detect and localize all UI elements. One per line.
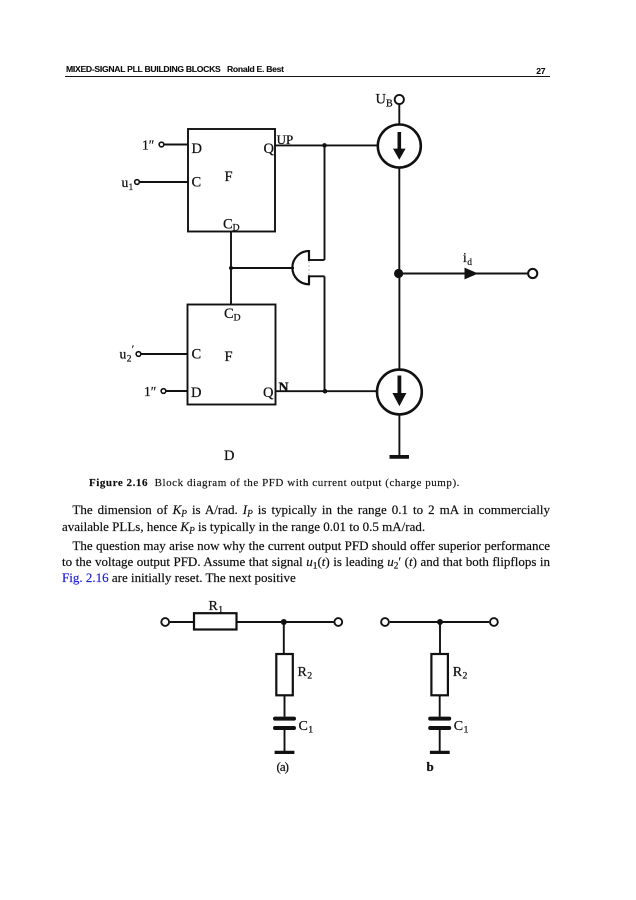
svg-text:2: 2 (307, 671, 312, 682)
current source I1 (378, 125, 421, 168)
ground (b) (430, 751, 450, 754)
svg-text:D: D (191, 385, 201, 401)
flip-flop FF1 box (188, 129, 275, 232)
svg-text:2: 2 (127, 355, 132, 365)
svg-text:R: R (453, 665, 463, 680)
figure caption (89, 477, 460, 489)
wire node down to R2 (b) (439, 622, 441, 654)
output node junction (394, 269, 403, 278)
svg-text:D: D (224, 448, 234, 464)
svg-text:1: 1 (218, 605, 223, 616)
wire UP junction down to AND gate input (324, 145, 326, 260)
AND gate U1 (mirrored, output to left) (292, 250, 309, 285)
wire I2 to ground (398, 414, 400, 455)
wire reset node to AND gate output (231, 267, 294, 269)
svg-text:u: u (122, 175, 129, 190)
junction node (b) (437, 619, 443, 625)
wire UB to current source I1 (398, 104, 400, 124)
output terminal id (528, 269, 537, 278)
junction reset node (229, 266, 233, 270)
svg-text:d: d (467, 258, 472, 268)
body paragraph 1 line 2 (62, 520, 550, 533)
svg-text:′: ′ (132, 344, 134, 356)
svg-text:D: D (192, 141, 202, 157)
wire C1 to ground (b) (439, 728, 441, 751)
svg-text:R: R (209, 599, 219, 614)
input terminal 1" (FF1 D) (159, 142, 164, 147)
svg-text:Q: Q (264, 141, 275, 157)
body paragraph 2 line 1 (62, 539, 550, 552)
wire u2' to FF2 C (141, 353, 187, 355)
wire 1" to FF1 D (164, 144, 188, 146)
input terminal 1" (FF2 D) (161, 389, 166, 394)
svg-text:(a): (a) (277, 759, 289, 774)
svg-text:b: b (427, 759, 434, 774)
svg-text:N: N (279, 381, 289, 396)
ground (a) (275, 751, 295, 754)
svg-text:u: u (120, 347, 127, 362)
svg-text:R: R (298, 665, 308, 680)
wire node down to R2 (a) (283, 622, 285, 654)
header rule (65, 76, 550, 77)
svg-text:C: C (299, 719, 308, 734)
AND gate flat-side faint middle (308, 261, 310, 275)
svg-text:2: 2 (463, 671, 468, 682)
svg-text:C: C (454, 719, 463, 734)
wire 1" to FF2 D (166, 390, 187, 392)
wire output node to id terminal (399, 273, 528, 275)
svg-text:1″: 1″ (142, 138, 154, 153)
svg-text:F: F (225, 349, 233, 365)
page header text (66, 65, 221, 74)
ground (390, 455, 410, 459)
junction N node (323, 389, 328, 394)
supply terminal UB (395, 95, 404, 104)
terminal (a) output (334, 618, 342, 626)
wire input to R1 (170, 621, 194, 623)
body paragraph 2 line 2 (62, 555, 550, 568)
svg-text:D: D (233, 223, 240, 234)
wire N junction up to AND gate input (324, 276, 326, 391)
svg-text:1: 1 (129, 183, 134, 193)
flip-flop FF2 box (188, 305, 276, 405)
body paragraph 2 line 3 (62, 571, 550, 584)
svg-text:1: 1 (464, 725, 469, 736)
wire I1 to output node (398, 168, 400, 274)
wire R2 to C1 (a) (284, 695, 286, 716)
svg-text:U: U (376, 92, 387, 108)
svg-text:B: B (386, 99, 393, 110)
resistor R1 (194, 613, 237, 629)
svg-text:C: C (192, 347, 202, 363)
current source I2 arrow (397, 376, 401, 395)
wire FF2 Q to current source I2 (N net) (276, 390, 378, 392)
input terminal u1 (135, 180, 140, 185)
wire AND gate bottom input stub (309, 275, 325, 277)
svg-text:Q: Q (263, 385, 274, 401)
svg-text:C: C (224, 306, 234, 322)
input terminal u2' (136, 352, 141, 357)
wire u1 to FF1 C (140, 181, 188, 183)
terminal (b) output (490, 618, 498, 626)
svg-text:C: C (192, 175, 202, 191)
resistor R2 (b) (431, 654, 448, 695)
capacitor C1 (a) (275, 717, 294, 721)
svg-text:C: C (223, 216, 233, 232)
wire input to output (b) (390, 621, 489, 623)
wire R2 to C1 (b) (439, 695, 441, 716)
body paragraph 1 line 1 (62, 503, 550, 516)
wire FF1 Q to current source I1 (UP net) (275, 144, 378, 146)
svg-text:D: D (234, 313, 241, 324)
wire R1 to output terminal (237, 621, 334, 623)
svg-text:1″: 1″ (144, 384, 156, 399)
wire output node to current source I2 (398, 274, 400, 370)
terminal (b) input (381, 618, 389, 626)
current source I1 arrow (397, 132, 401, 149)
junction UP node (322, 143, 327, 148)
wire C1 to ground (a) (284, 728, 286, 751)
capacitor C1 (b) (430, 717, 449, 721)
junction node (a) (281, 619, 287, 625)
svg-text:F: F (225, 169, 233, 185)
resistor R2 (a) (276, 654, 293, 695)
terminal (a) input (161, 618, 169, 626)
wire FF1 CD down to FF2 CD (reset line) (230, 232, 232, 305)
svg-text:1: 1 (308, 725, 313, 736)
wire AND gate top input stub (309, 259, 325, 261)
current source I2 (377, 370, 422, 415)
page number 27 (536, 67, 545, 76)
current arrow id (465, 268, 479, 280)
